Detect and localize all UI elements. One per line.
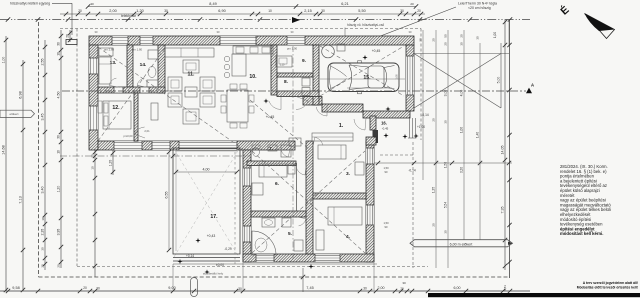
kitchen stools <box>224 56 230 62</box>
star hall <box>263 98 268 103</box>
svg-text:20: 20 <box>432 38 436 42</box>
wall between 9 and 8 <box>277 73 313 77</box>
star porch b <box>402 134 407 139</box>
svg-text:14.: 14. <box>140 62 147 68</box>
left banner elokert <box>0 110 35 117</box>
roof diagonal garage a <box>320 46 404 96</box>
svg-text:5.: 5. <box>288 231 292 237</box>
star garage <box>362 55 367 60</box>
eaves dashed line left <box>76 29 78 267</box>
star entry outside <box>413 133 418 138</box>
desk room 9 <box>276 56 292 67</box>
svg-text:3,20: 3,20 <box>460 167 464 173</box>
svg-text:30: 30 <box>402 281 406 285</box>
svg-text:20: 20 <box>444 42 448 46</box>
svg-text:6,00 m előkert: 6,00 m előkert <box>450 242 473 246</box>
svg-text:20: 20 <box>41 264 45 268</box>
svg-text:+0,45: +0,45 <box>372 49 381 53</box>
terrace steps bottom <box>173 257 240 259</box>
svg-text:±0,00: ±0,00 <box>216 263 224 267</box>
dim chain x113 lower <box>112 150 114 175</box>
svg-text:11.: 11. <box>188 72 195 78</box>
svg-text:5,54: 5,54 <box>444 202 448 208</box>
dim chain x95 lower <box>94 150 96 277</box>
svg-text:30: 30 <box>96 287 100 291</box>
svg-text:30: 30 <box>238 287 242 291</box>
extension line terrace left <box>172 264 174 290</box>
terrace outline <box>173 148 240 254</box>
svg-text:3,95: 3,95 <box>57 229 61 236</box>
wall rooms column divider x306 <box>306 141 313 254</box>
svg-text:30: 30 <box>164 9 168 13</box>
shelf room 8 <box>302 78 310 86</box>
door arc room 3 <box>315 137 323 145</box>
svg-text:1,35: 1,35 <box>432 187 436 193</box>
terrace dim 6,55 <box>168 152 170 250</box>
eaves dashed line right <box>420 29 422 141</box>
wall bottom upper-left block <box>98 141 295 150</box>
svg-text:1,50: 1,50 <box>383 166 389 170</box>
left dim line x70 <box>69 30 71 42</box>
svg-text:1,00: 1,00 <box>460 127 464 133</box>
kitchen counter L <box>232 54 246 76</box>
svg-text:1,50: 1,50 <box>444 162 448 168</box>
svg-text:30: 30 <box>363 287 367 291</box>
svg-text:4,50: 4,50 <box>57 92 61 99</box>
svg-text:10: 10 <box>41 217 45 221</box>
star bottom right wing <box>308 264 313 269</box>
svg-text:20: 20 <box>57 264 61 268</box>
wall right of 14 <box>158 45 165 93</box>
svg-text:1,50: 1,50 <box>383 221 389 225</box>
window room14 top <box>140 36 153 45</box>
svg-text:10: 10 <box>57 52 61 56</box>
svg-text:7,13: 7,13 <box>19 196 23 203</box>
svg-text:-0,45: -0,45 <box>382 127 389 131</box>
basin bath 5 <box>262 218 275 227</box>
eaves dashed line top <box>60 28 421 30</box>
svg-text:LeierTherm 30 N+F tégla: LeierTherm 30 N+F tégla <box>458 2 497 6</box>
north arrow <box>585 14 615 39</box>
svg-text:1,20: 1,20 <box>109 160 113 167</box>
star terrace 3 <box>204 269 209 274</box>
pavement dashed line bottom <box>77 266 428 268</box>
roof diagonal hall <box>250 100 310 150</box>
dim line y163 right <box>374 162 512 164</box>
svg-text:8,49: 8,49 <box>209 2 216 6</box>
svg-text:9,58: 9,58 <box>12 286 19 290</box>
svg-text:30: 30 <box>90 2 94 6</box>
star porch a <box>383 133 388 138</box>
svg-text:30: 30 <box>57 42 61 46</box>
garage door right wall <box>406 56 414 95</box>
wall garage bottom left <box>303 97 322 106</box>
projection verticals <box>422 30 424 180</box>
svg-text:7,35: 7,35 <box>501 207 505 214</box>
roof diagonal lower wing a <box>252 151 365 253</box>
property line bottom dashed <box>39 276 511 278</box>
garage projection vertical x501 <box>500 43 502 108</box>
svg-text:1,00: 1,00 <box>493 32 497 38</box>
wall between 6 and 5 left col <box>251 211 306 217</box>
svg-text:3,00: 3,00 <box>444 90 448 97</box>
roof diagonal upper-left b <box>98 48 165 141</box>
garage dim car <box>347 87 392 89</box>
entry steps outside <box>409 118 411 138</box>
window room13 left <box>89 58 98 74</box>
section line A <box>62 90 526 92</box>
svg-text:pm0,00: pm0,00 <box>124 134 133 138</box>
dim chain bottom <box>0 290 530 292</box>
svg-text:20: 20 <box>66 34 70 38</box>
svg-text:1,40: 1,40 <box>476 132 480 138</box>
svg-text:1,00: 1,00 <box>2 57 6 64</box>
property line right <box>509 20 511 279</box>
bed room 12 <box>103 101 131 129</box>
svg-text:6,90: 6,90 <box>218 9 225 13</box>
svg-text:pm 1,80: pm 1,80 <box>132 48 143 52</box>
svg-text:hőszig vö. hőszivattyú-cső: hőszig vö. hőszivattyú-cső <box>347 23 384 27</box>
svg-text:autóbeálló hely: autóbeálló hely <box>203 272 224 276</box>
svg-text:<20 cm hőszig: <20 cm hőszig <box>468 6 491 10</box>
left dim line x61 <box>60 30 62 268</box>
svg-text:pm 1,90: pm 1,90 <box>287 47 298 51</box>
door arc garage hall <box>316 107 327 116</box>
svg-text:20: 20 <box>417 9 421 13</box>
svg-text:előkert: előkert <box>9 112 18 116</box>
wall wc2 bottom <box>247 161 296 166</box>
wc room 7 basin <box>268 145 277 151</box>
wall lower wing bottom <box>243 254 374 262</box>
wall room12 right <box>134 93 138 141</box>
window room3 right <box>366 148 374 164</box>
window room12 left <box>89 106 98 130</box>
wall between 3 and 4 right col <box>313 193 366 199</box>
wall below rooms 8 <box>277 91 319 97</box>
svg-text:+1,00: +1,00 <box>417 125 425 129</box>
sideboard living top <box>165 48 214 57</box>
svg-text:-0,14: -0,14 <box>408 169 415 173</box>
wall kitchen right x271 <box>271 45 277 95</box>
dashed projection y155 segment <box>380 154 413 156</box>
door gap room 14 <box>140 87 149 92</box>
window bath5 left <box>243 226 251 242</box>
pillar dark hall right <box>373 130 379 143</box>
window room9 top <box>287 36 305 45</box>
window bath5 bottom <box>256 254 274 262</box>
svg-text:14,68: 14,68 <box>2 145 6 155</box>
svg-text:módosítást kell kérni.: módosítást kell kérni. <box>560 231 603 236</box>
svg-text:-0,29: -0,29 <box>224 247 231 251</box>
svg-text:30: 30 <box>476 36 480 40</box>
wall room9 right garage left <box>313 45 319 105</box>
star terrace 1 <box>195 238 200 243</box>
roof diagonal terrace a <box>174 149 239 257</box>
small marker x303 <box>302 268 304 292</box>
property line top (telekhatar) <box>0 19 530 21</box>
svg-text:10: 10 <box>57 150 61 154</box>
window kitchen top <box>220 36 256 45</box>
svg-text:10: 10 <box>268 9 272 13</box>
svg-text:20: 20 <box>83 286 87 290</box>
svg-text:20: 20 <box>410 2 414 6</box>
fixtures room 14 <box>148 50 158 59</box>
roof diagonal garage b <box>320 46 404 96</box>
boiler garage circle <box>322 45 335 58</box>
seating group living <box>168 77 182 91</box>
svg-text:16.: 16. <box>381 121 387 126</box>
svg-text:Módosítás előtt tervezői értes: Módosítás előtt tervezői értesítés kell! <box>577 286 638 290</box>
svg-text:A: A <box>531 83 534 88</box>
corner shower bath 5 <box>252 231 276 255</box>
svg-text:1,06: 1,06 <box>395 74 399 80</box>
roof diagonal terrace b <box>174 149 239 257</box>
wc room 7 toilet <box>253 148 260 157</box>
terrace door bottom wall <box>179 141 237 150</box>
left dim line x6 <box>5 36 7 291</box>
svg-text:14,05: 14,05 <box>501 146 505 155</box>
door arc room 8 <box>269 101 281 110</box>
gate pill bottom <box>191 278 198 297</box>
window room4 right <box>366 205 374 225</box>
svg-text:4,00: 4,00 <box>203 168 210 172</box>
svg-text:6,21: 6,21 <box>341 2 348 6</box>
window corridor bottom <box>152 141 170 150</box>
svg-text:3.: 3. <box>346 171 350 177</box>
wall left <box>89 45 98 150</box>
svg-text:3,45: 3,45 <box>41 114 45 121</box>
svg-text:9,00: 9,00 <box>168 286 175 290</box>
property line left dashed <box>38 22 40 277</box>
bed room 6 <box>259 164 287 177</box>
svg-text:2,00: 2,00 <box>109 9 116 13</box>
wall garage bottom mid <box>322 104 363 112</box>
door arc wc 7 <box>281 150 288 157</box>
window room13 top <box>112 36 128 45</box>
svg-text:telekhatár: telekhatár <box>121 14 137 18</box>
extension line wing left <box>242 263 244 290</box>
wall garage right <box>406 45 414 111</box>
svg-text:30: 30 <box>460 42 464 46</box>
svg-text:8.: 8. <box>284 79 288 85</box>
star porch <box>385 106 390 111</box>
dashed projection x413 lower <box>412 142 414 268</box>
desk room 3 <box>355 162 364 175</box>
door arc entrance <box>354 119 365 130</box>
svg-text:-0,14: -0,14 <box>421 113 428 117</box>
equipment garage <box>337 44 345 51</box>
svg-text:4.: 4. <box>346 234 350 240</box>
svg-text:6.: 6. <box>275 181 279 187</box>
roof diagonal upper-left a <box>98 47 243 149</box>
svg-text:17.: 17. <box>210 214 218 220</box>
window room12 bottom <box>114 141 142 150</box>
bed room 3 <box>318 145 346 159</box>
svg-text:30: 30 <box>321 9 325 13</box>
svg-text:2,01: 2,01 <box>144 129 150 133</box>
svg-text:30: 30 <box>444 230 448 234</box>
door arc room 14 <box>137 78 144 85</box>
svg-text:1,20: 1,20 <box>57 186 61 193</box>
garage projection diag a <box>414 54 501 109</box>
left dim line x45 <box>44 40 46 270</box>
svg-text:4,81: 4,81 <box>503 285 507 291</box>
shower room 7 <box>281 145 291 157</box>
svg-text:9.: 9. <box>302 58 306 64</box>
wc bath 5 <box>294 240 303 251</box>
roof diagonal lower wing b <box>252 151 365 253</box>
svg-text:20: 20 <box>78 9 82 13</box>
svg-text:2,35: 2,35 <box>41 229 45 236</box>
shelf hall <box>289 138 301 146</box>
svg-text:30: 30 <box>400 9 404 13</box>
svg-text:20: 20 <box>432 118 436 122</box>
closet room 3 top <box>312 133 353 141</box>
car in garage <box>328 63 399 92</box>
garage projection horizontal <box>414 53 509 55</box>
svg-text:10.: 10. <box>249 74 257 80</box>
svg-text:5,50: 5,50 <box>358 9 365 13</box>
svg-text:50: 50 <box>444 34 448 38</box>
svg-text:1.: 1. <box>339 123 344 129</box>
svg-text:30: 30 <box>419 38 423 42</box>
wall below 13 14 <box>98 87 165 93</box>
washer bath 5 <box>282 218 291 227</box>
svg-text:13.: 13. <box>110 60 117 66</box>
svg-text:4,00: 4,00 <box>460 90 464 97</box>
garage projection diag b <box>414 54 501 109</box>
svg-text:2,00: 2,00 <box>378 286 385 290</box>
dim line x505 right full <box>504 20 506 270</box>
door arc bath 5 <box>299 219 306 226</box>
cabinet corridor <box>151 103 158 120</box>
wardrobe room 4 <box>316 230 324 250</box>
window room6 terrace <box>243 168 251 186</box>
svg-text:20: 20 <box>400 287 404 291</box>
wall garage bottom right <box>363 111 410 118</box>
svg-text:6,00: 6,00 <box>454 286 461 290</box>
svg-text:+0,43: +0,43 <box>207 234 216 238</box>
svg-text:hőszivattyú kültéri egység: hőszivattyú kültéri egység <box>10 2 50 6</box>
svg-text:30: 30 <box>444 120 448 124</box>
closet room 13 <box>99 48 113 56</box>
heat pump outdoor unit <box>66 40 77 45</box>
desk room 6 <box>252 183 263 195</box>
door arc room 13 <box>109 78 116 85</box>
star terrace 2 <box>177 259 182 264</box>
svg-text:7,45: 7,45 <box>306 286 313 290</box>
svg-text:3,40: 3,40 <box>41 187 45 194</box>
svg-text:2,55: 2,55 <box>41 59 45 66</box>
section line B horizontal <box>60 155 250 157</box>
door arc room 12 <box>135 127 145 134</box>
garage axis line <box>320 78 405 80</box>
eaves dashed wing left <box>234 152 236 264</box>
svg-text:30: 30 <box>57 135 61 139</box>
left dim line x23 <box>22 60 24 291</box>
dim chain top row1 <box>88 6 416 8</box>
dim chain top row2 <box>60 13 425 15</box>
terrace dim 4,00 <box>176 171 237 173</box>
wall between 13 and 14 <box>127 45 133 87</box>
svg-text:7.: 7. <box>269 146 273 151</box>
svg-text:10: 10 <box>91 166 95 170</box>
svg-text:+0,14: +0,14 <box>186 254 194 258</box>
door gap room 13 <box>114 87 123 92</box>
svg-text:20: 20 <box>432 223 436 227</box>
svg-text:2,15: 2,15 <box>304 9 311 13</box>
bed room 4 <box>328 207 362 225</box>
svg-text:1,10: 1,10 <box>280 64 285 67</box>
elokert pill <box>410 240 513 247</box>
svg-text:30: 30 <box>41 247 45 251</box>
wall lower wing left <box>243 150 251 262</box>
svg-text:15.: 15. <box>363 75 371 81</box>
svg-text:+0,45: +0,45 <box>266 115 275 119</box>
window room4 bottom <box>315 254 340 262</box>
black bottom bar <box>428 293 640 297</box>
dining table <box>227 90 248 122</box>
svg-text:A terv szerzői jogvédelem alat: A terv szerzői jogvédelem alatt áll! <box>583 281 638 285</box>
wall wing top-right corner <box>366 137 376 145</box>
extension line wing right <box>373 263 375 290</box>
wall lower wing right <box>366 141 374 262</box>
svg-text:6,98: 6,98 <box>19 91 23 98</box>
svg-text:20: 20 <box>460 34 464 38</box>
svg-text:1,20: 1,20 <box>136 9 143 13</box>
svg-text:12.: 12. <box>112 105 120 111</box>
entrance arrow on property line <box>292 17 300 23</box>
svg-text:5,00: 5,00 <box>497 77 501 84</box>
corridor wall lower wing <box>296 163 298 211</box>
kitchen counter top <box>233 46 273 54</box>
section dashed vertical x293 <box>292 46 294 262</box>
wall hall right below garage <box>370 116 376 130</box>
wall top <box>89 36 414 45</box>
wardrobe room 6 <box>288 164 295 174</box>
svg-text:6,55: 6,55 <box>165 192 169 199</box>
door arc room 6 <box>296 167 305 175</box>
